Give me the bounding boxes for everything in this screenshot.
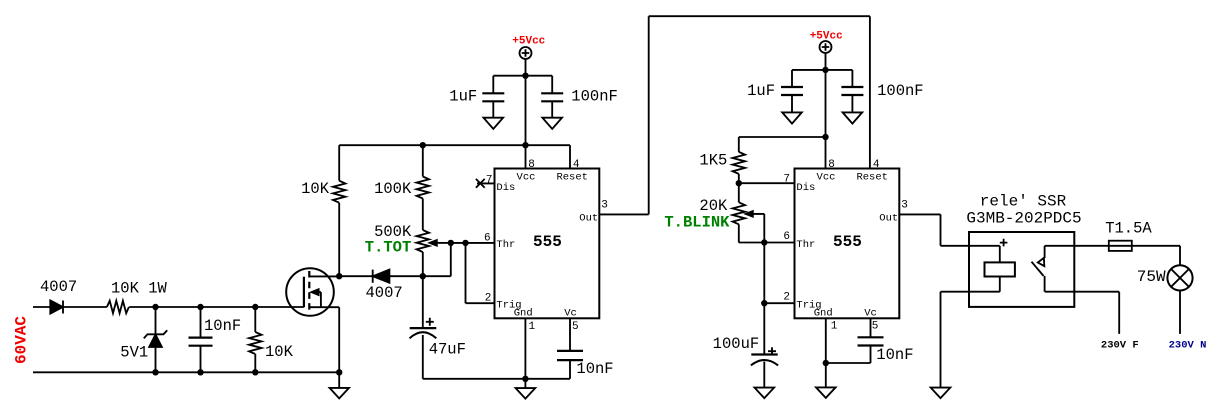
label 20K (699, 197, 728, 215)
potentiometer 500K (417, 230, 451, 276)
junction cap top (197, 304, 203, 310)
svg-text:Gnd: Gnd (814, 307, 833, 319)
label T.TOT (365, 239, 412, 257)
resistor 10K drain (333, 145, 345, 276)
junction Vcc caps (522, 73, 528, 79)
wire wiper to Thr pin6 (451, 242, 495, 244)
label 1K5 (699, 152, 727, 170)
net label 230V F (1101, 339, 1139, 351)
power +5Vcc timer2 (810, 30, 843, 53)
svg-text:T.BLINK: T.BLINK (664, 213, 730, 231)
svg-text:230V F: 230V F (1101, 339, 1139, 351)
svg-text:Out: Out (879, 212, 898, 224)
wire Out timer2 to relay (899, 214, 1000, 245)
label T1.5A (1105, 220, 1152, 238)
ground 1uF timer2 (782, 112, 802, 123)
svg-text:4: 4 (873, 159, 880, 171)
wire switch bottom to 230V F (1045, 292, 1120, 334)
svg-text:Vc: Vc (864, 307, 877, 319)
wire Thr pin6 timer2 (739, 242, 795, 244)
diode D2 4007 discharge (373, 270, 423, 283)
svg-text:rele' SSR: rele' SSR (980, 192, 1067, 210)
label 4007 (366, 284, 403, 302)
wire Gnd pin1 timer1 (524, 318, 526, 379)
relay coil input plus (1000, 239, 1008, 247)
svg-text:230V N: 230V N (1169, 339, 1207, 351)
svg-text:100nF: 100nF (571, 88, 618, 106)
label G3MB-202PDC5 (966, 210, 1081, 228)
svg-text:4007: 4007 (40, 278, 77, 296)
wire Vcc rail timer2 (739, 136, 826, 138)
label 5V1 (120, 344, 148, 362)
wire AC live rail (33, 306, 304, 308)
label T.BLINK (664, 213, 730, 231)
junction Trig node timer2 (761, 300, 767, 306)
capacitor C 10nF input (189, 307, 213, 372)
svg-text:Thr: Thr (496, 239, 515, 251)
svg-text:Dis: Dis (796, 182, 815, 194)
svg-text:+5Vcc: +5Vcc (810, 30, 843, 42)
svg-text:6: 6 (783, 231, 790, 243)
ground 100nF timer2 (843, 112, 863, 123)
power +5Vcc timer1 (512, 35, 545, 59)
svg-text:100nF: 100nF (877, 82, 924, 100)
label 100nF (571, 88, 618, 106)
junction wiper branch (448, 240, 454, 246)
wire coil return to ground (941, 292, 1000, 388)
IC U2 555 (783, 159, 907, 332)
wire AC neutral rail (33, 371, 339, 373)
svg-text:3: 3 (601, 199, 608, 211)
wire Out timer1 to top rail to Reset timer2 (599, 16, 870, 214)
resistor 1K5 (733, 137, 745, 183)
wire Dis pin7 timer2 (739, 182, 795, 184)
zener diode 5V1 (144, 307, 167, 372)
wire bypass caps rail timer1 (493, 75, 552, 77)
label 4007 (40, 278, 77, 296)
junction Vcc rail (522, 142, 528, 148)
svg-text:Vc: Vc (564, 307, 577, 319)
net label 230V N (1169, 339, 1207, 351)
wire Gnd pin1 timer2 (826, 318, 871, 363)
resistor 10K gate pulldown (249, 307, 261, 372)
svg-text:Dis: Dis (496, 182, 515, 194)
relay coil (985, 246, 1015, 292)
svg-text:100uF: 100uF (713, 335, 760, 353)
wire Reset pin4 drop timer1 (569, 145, 571, 168)
svg-text:1uF: 1uF (449, 88, 477, 106)
ground 1uF (484, 118, 504, 129)
ground 100uF (755, 388, 775, 399)
ground at MOSFET source (330, 372, 349, 398)
junction Dis node timer2 (736, 180, 742, 186)
svg-text:10K 1W: 10K 1W (111, 280, 168, 298)
label 75W (1137, 268, 1166, 286)
svg-text:2: 2 (485, 293, 492, 305)
junction resistor bottom (252, 369, 258, 375)
label 10nF (876, 346, 913, 364)
svg-text:75W: 75W (1137, 268, 1166, 286)
resistor 100K (417, 145, 429, 230)
ground timer1 (516, 379, 536, 399)
svg-text:4007: 4007 (366, 284, 403, 302)
svg-text:10K: 10K (301, 180, 330, 198)
diode D1 4007 input (50, 300, 63, 313)
capacitor 1uF bypass timer2 (781, 70, 803, 113)
label 10nF (576, 360, 613, 378)
junction timer1 gnd (522, 376, 528, 382)
svg-text:1K5: 1K5 (699, 152, 727, 170)
label 1uF (449, 88, 477, 106)
ground timer2 (816, 363, 836, 398)
junction Gnd timer2 (823, 360, 829, 366)
svg-text:4: 4 (573, 159, 580, 171)
junction wiper on Thr timer2 (761, 239, 767, 245)
junction MOSFET source / neutral rail (336, 369, 342, 375)
capacitor C2 10nF control (557, 318, 583, 379)
svg-text:3: 3 (901, 199, 908, 211)
wire switch top to fuse (1045, 246, 1180, 265)
net 60VAC label (13, 316, 31, 364)
svg-text:Gnd: Gnd (514, 307, 533, 319)
svg-text:7: 7 (783, 173, 790, 185)
junction drain node (336, 273, 342, 279)
wire Vcc rail timer1 (339, 144, 570, 146)
label 47uF (429, 340, 466, 358)
fuse T1.5A (1109, 241, 1132, 251)
svg-text:60VAC: 60VAC (13, 316, 31, 364)
svg-text:20K: 20K (699, 197, 728, 215)
label 100uF (713, 335, 760, 353)
svg-text:10nF: 10nF (576, 360, 613, 378)
svg-text:10K: 10K (265, 343, 294, 361)
ground 100nF (542, 118, 562, 129)
svg-text:5: 5 (872, 320, 879, 332)
svg-text:1: 1 (831, 320, 838, 332)
relay switch (1032, 246, 1045, 292)
capacitor C1 47uF (410, 276, 437, 379)
junction zener bottom (152, 369, 158, 375)
label 100K (374, 180, 412, 198)
lamp 75W (1167, 265, 1192, 334)
label 10K (265, 343, 294, 361)
label 500K (374, 223, 412, 241)
wire Vcc drop timer1 (525, 59, 527, 169)
capacitor 100nF bypass timer2 (841, 70, 863, 113)
junction Vcc caps timer2 (822, 67, 828, 73)
label 10nF (204, 317, 241, 335)
svg-text:100K: 100K (374, 180, 412, 198)
junction 100K top (420, 142, 426, 148)
svg-text:47uF: 47uF (429, 340, 466, 358)
wire Thr to cap node (423, 243, 451, 276)
label 100nF (877, 82, 924, 100)
label rele' SSR (980, 192, 1067, 210)
label 10K 1W (111, 280, 168, 298)
capacitor C3 100uF (751, 303, 778, 387)
junction cap bottom (197, 369, 203, 375)
wire Vcc drop timer2 (825, 53, 827, 169)
svg-text:Out: Out (579, 212, 598, 224)
capacitor C4 10nF control timer2 (858, 318, 884, 363)
svg-text:555: 555 (533, 233, 562, 251)
svg-text:1: 1 (529, 321, 536, 333)
capacitor 1uF bypass timer1 (482, 76, 504, 118)
junction Thr-Trig branch (462, 240, 468, 246)
relay SSR module box (969, 232, 1074, 307)
svg-text:Vcc: Vcc (817, 171, 836, 183)
wire ground rail timer1 (423, 378, 570, 380)
svg-text:Reset: Reset (556, 171, 588, 183)
ground relay coil (931, 388, 951, 399)
wire Thr to Trig pin2 (466, 243, 495, 303)
svg-text:6: 6 (484, 233, 491, 245)
svg-text:5V1: 5V1 (120, 344, 148, 362)
svg-text:5: 5 (572, 321, 579, 333)
potentiometer 20K (733, 183, 765, 242)
transistor Q1 MOSFET (286, 268, 339, 372)
no-connect X on pin7 Dis (476, 179, 495, 188)
capacitor 100nF bypass timer1 (541, 76, 563, 118)
label 10K (301, 180, 330, 198)
svg-text:+5Vcc: +5Vcc (512, 35, 545, 47)
IC U1 555 (484, 159, 608, 333)
svg-text:1uF: 1uF (747, 82, 775, 100)
svg-text:555: 555 (833, 233, 862, 251)
svg-text:8: 8 (528, 159, 535, 171)
label 1uF (747, 82, 775, 100)
svg-text:Vcc: Vcc (517, 171, 536, 183)
svg-text:Thr: Thr (796, 239, 815, 251)
resistor 10K 1W (107, 301, 129, 313)
wire bypass caps rail timer2 (792, 69, 852, 71)
junction zener top (152, 304, 158, 310)
svg-text:10nF: 10nF (876, 346, 913, 364)
svg-text:G3MB-202PDC5: G3MB-202PDC5 (966, 210, 1081, 228)
svg-text:Reset: Reset (856, 171, 888, 183)
svg-text:T.TOT: T.TOT (365, 239, 412, 257)
svg-text:2: 2 (783, 292, 790, 304)
junction pot bottom / cap node (420, 273, 426, 279)
svg-text:7: 7 (486, 175, 493, 187)
svg-text:T1.5A: T1.5A (1105, 220, 1152, 238)
junction resistor top (252, 304, 258, 310)
wire drain node to diode (339, 275, 373, 277)
junction Vcc rail timer2 (822, 134, 828, 140)
svg-text:10nF: 10nF (204, 317, 241, 335)
wire Thr to Trig timer2 (764, 243, 794, 304)
svg-text:8: 8 (828, 159, 835, 171)
